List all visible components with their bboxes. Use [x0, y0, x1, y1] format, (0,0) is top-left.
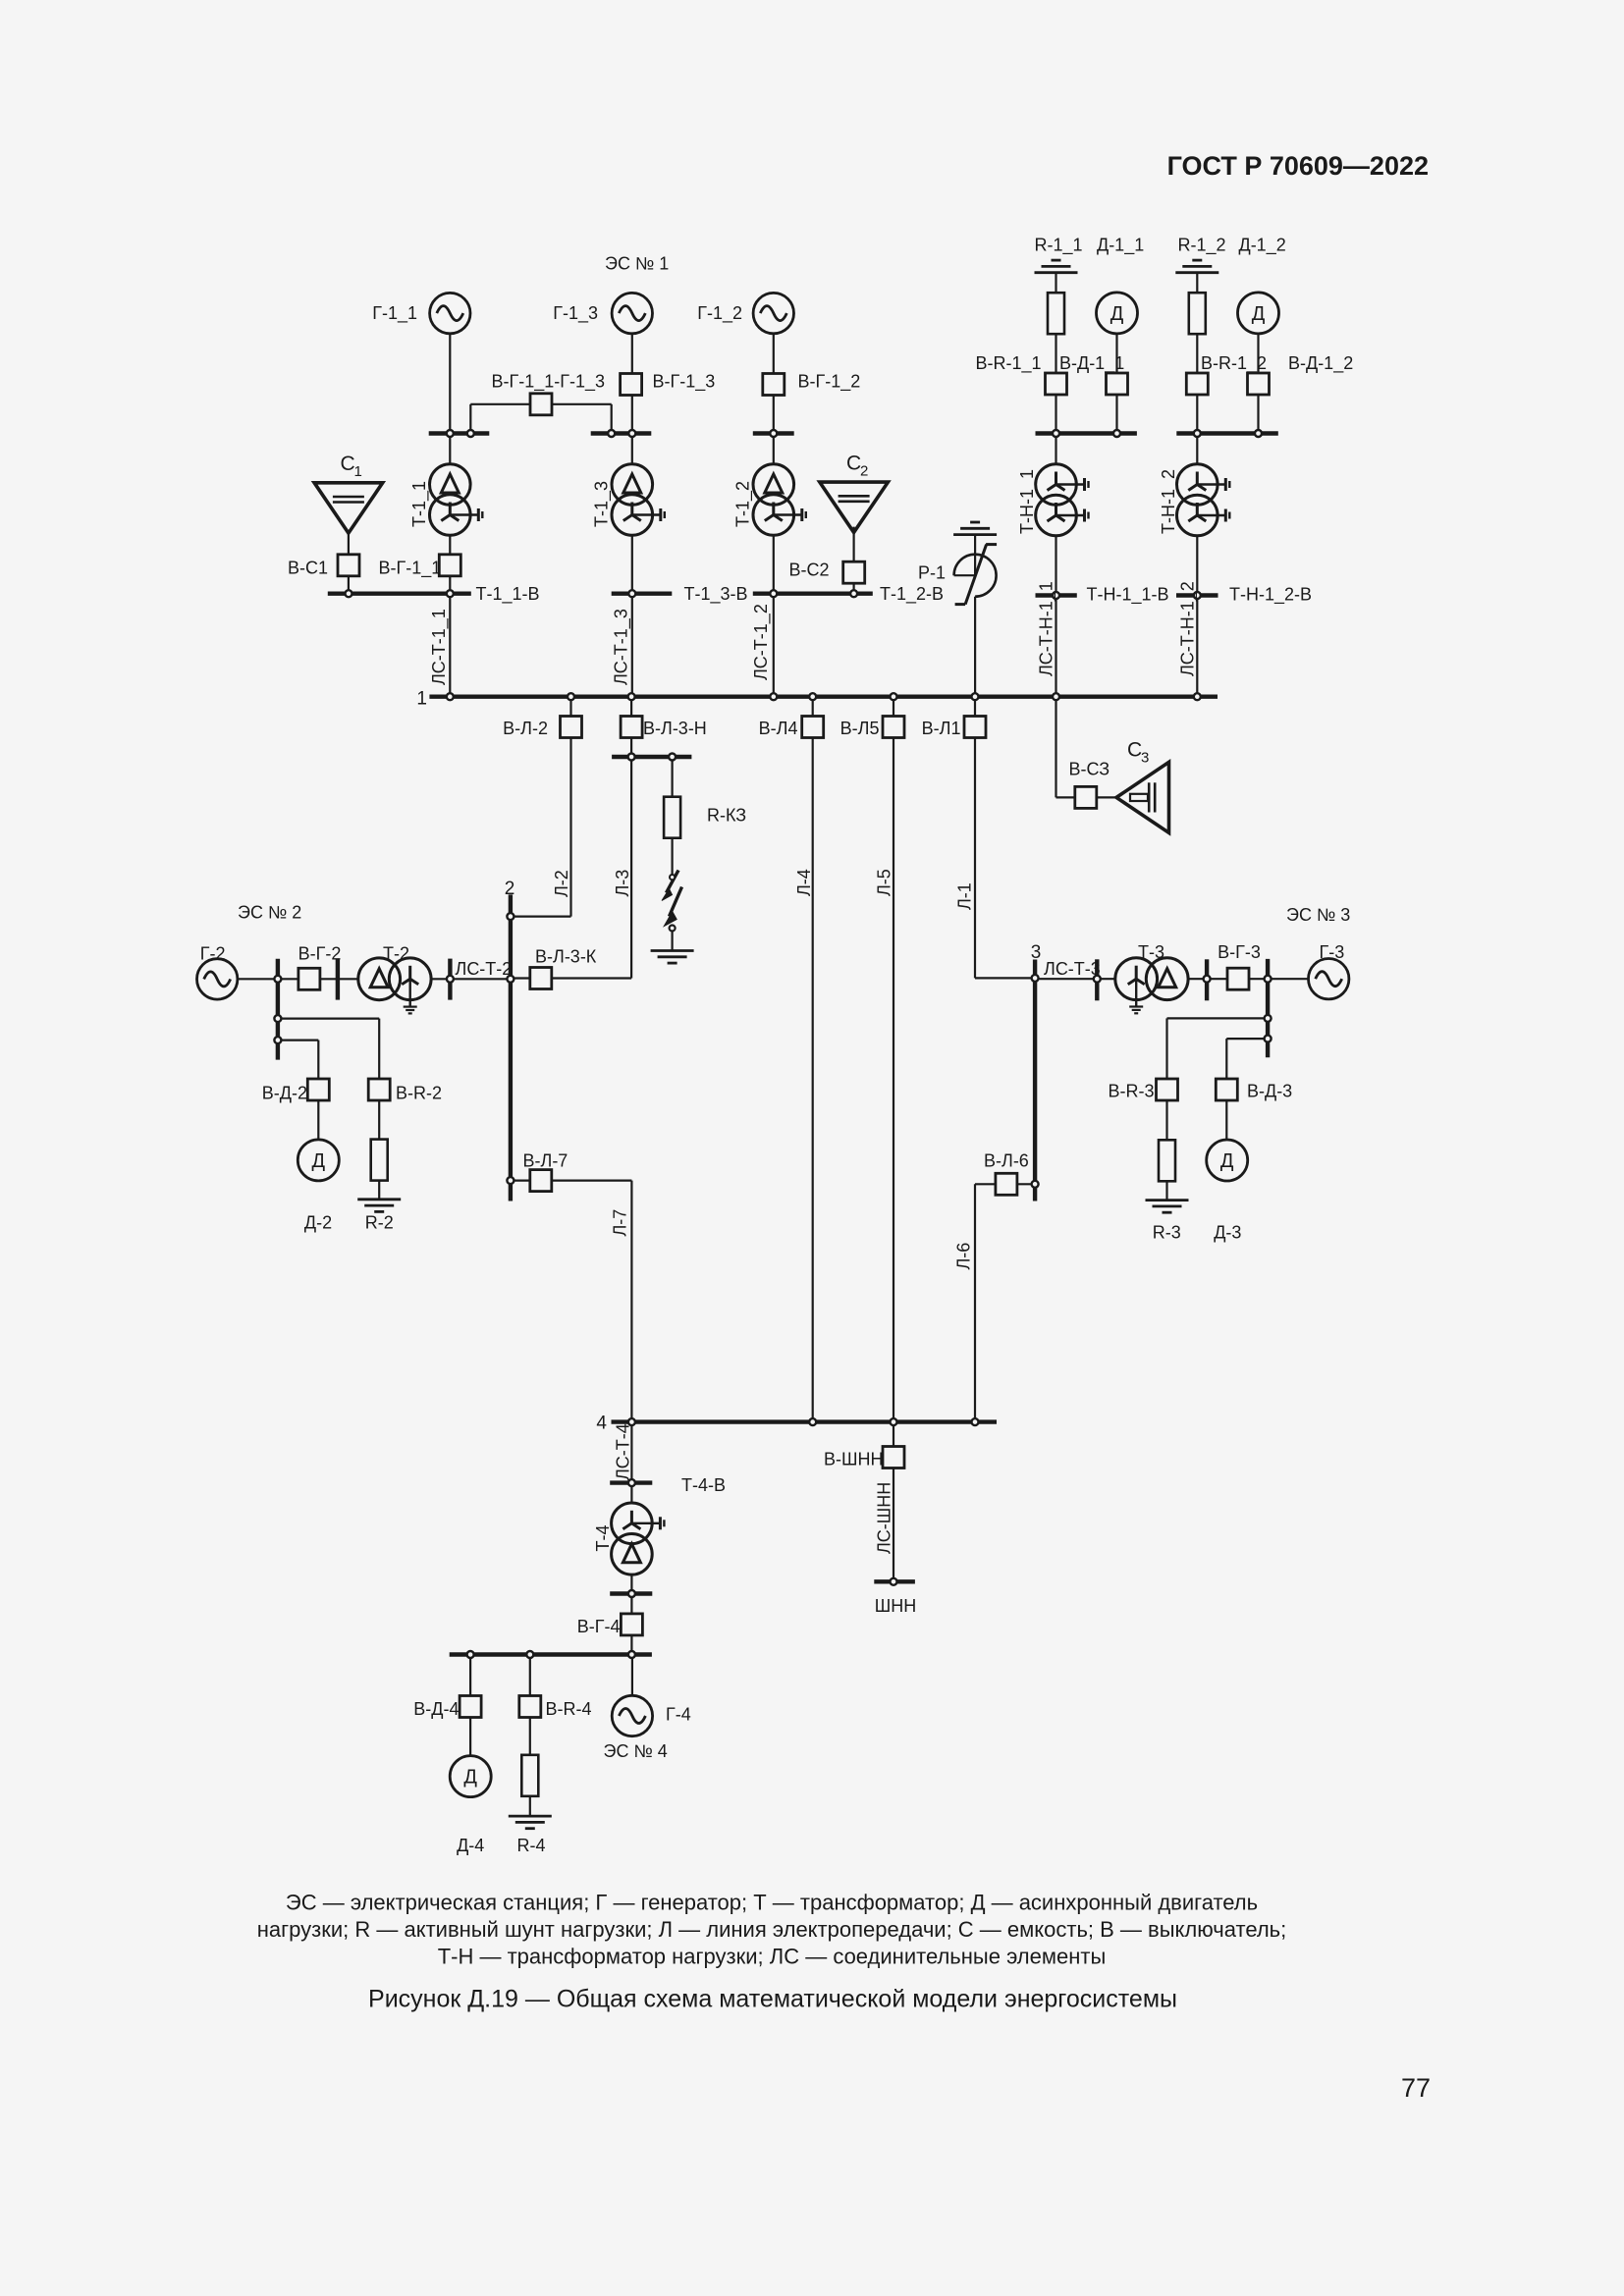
- svg-text:Д-3: Д-3: [1214, 1222, 1241, 1242]
- svg-text:Г-3: Г-3: [1320, 942, 1345, 962]
- svg-text:ЭС № 2: ЭС № 2: [238, 903, 301, 923]
- svg-text:R-КЗ: R-КЗ: [707, 806, 746, 826]
- svg-text:ЛС-Т-Н-1_2: ЛС-Т-Н-1_2: [1178, 581, 1199, 676]
- svg-text:1: 1: [416, 689, 427, 710]
- svg-text:В-Л-2: В-Л-2: [503, 719, 548, 738]
- svg-text:Г-1_1: Г-1_1: [372, 303, 417, 324]
- svg-text:ГОСТ Р 70609—2022: ГОСТ Р 70609—2022: [1167, 151, 1429, 181]
- svg-text:Г-1_2: Г-1_2: [697, 303, 742, 324]
- svg-text:Д-4: Д-4: [457, 1836, 484, 1855]
- svg-text:Т-Н-1_2-В: Т-Н-1_2-В: [1229, 585, 1312, 606]
- svg-text:В-Д-4: В-Д-4: [413, 1699, 459, 1719]
- svg-text:В-Д-1_1: В-Д-1_1: [1059, 353, 1124, 374]
- svg-text:Т-1_2: Т-1_2: [733, 481, 754, 527]
- svg-text:77: 77: [1401, 2073, 1431, 2103]
- svg-text:Т-Н-1_1-В: Т-Н-1_1-В: [1087, 585, 1169, 606]
- svg-text:Д: Д: [1220, 1150, 1234, 1172]
- svg-text:ЛС-Т-1_1: ЛС-Т-1_1: [429, 609, 450, 685]
- svg-text:В-Л-3-Н: В-Л-3-Н: [643, 719, 707, 738]
- svg-text:В-R-1_1: В-R-1_1: [976, 353, 1042, 374]
- svg-text:В-Л-7: В-Л-7: [523, 1151, 568, 1171]
- svg-text:ЛС-Т-1_2: ЛС-Т-1_2: [751, 604, 772, 680]
- svg-text:Т-3: Т-3: [1138, 942, 1164, 962]
- svg-text:ЭС № 4: ЭС № 4: [604, 1741, 668, 1761]
- svg-text:Л-3: Л-3: [613, 870, 632, 897]
- svg-text:Л-2: Л-2: [552, 870, 571, 897]
- svg-text:ЛС-Т-2: ЛС-Т-2: [456, 959, 513, 979]
- svg-text:Т-Н-1_2: Т-Н-1_2: [1159, 469, 1179, 534]
- svg-text:Т-Н — трансформатор нагрузки;: Т-Н — трансформатор нагрузки; ЛС — соеди…: [438, 1944, 1107, 1968]
- svg-text:Г-1_3: Г-1_3: [553, 303, 598, 324]
- svg-text:В-ШНН: В-ШНН: [824, 1450, 884, 1469]
- svg-text:Л-7: Л-7: [611, 1209, 630, 1237]
- svg-text:3: 3: [1141, 750, 1149, 767]
- svg-text:Д: Д: [463, 1767, 477, 1789]
- svg-text:Г-2: Г-2: [200, 944, 226, 964]
- svg-text:Л-4: Л-4: [794, 869, 814, 896]
- svg-text:Д-2: Д-2: [304, 1213, 332, 1233]
- svg-text:С: С: [1127, 739, 1142, 762]
- svg-text:В-С1: В-С1: [288, 559, 328, 578]
- svg-text:Д: Д: [1110, 303, 1124, 325]
- svg-text:В-Г-2: В-Г-2: [298, 944, 342, 964]
- svg-text:Л-6: Л-6: [954, 1243, 974, 1270]
- svg-text:В-Г-1_3: В-Г-1_3: [653, 372, 716, 393]
- svg-text:ЛС-Т-Н-1_1: ЛС-Т-Н-1_1: [1037, 581, 1057, 676]
- svg-text:Т-4-В: Т-4-В: [681, 1475, 726, 1495]
- svg-text:ЛС-Т-3: ЛС-Т-3: [1044, 959, 1101, 979]
- svg-text:Р-1: Р-1: [918, 563, 946, 583]
- svg-text:Д: Д: [1252, 303, 1266, 325]
- svg-text:В-Л4: В-Л4: [759, 719, 798, 738]
- svg-text:ШНН: ШНН: [875, 1596, 917, 1616]
- svg-text:В-Л-6: В-Л-6: [984, 1151, 1029, 1171]
- svg-text:Т-1_2-В: Т-1_2-В: [880, 584, 944, 605]
- svg-text:ЛС-ШНН: ЛС-ШНН: [875, 1482, 894, 1554]
- svg-text:ЭС № 1: ЭС № 1: [605, 254, 669, 274]
- svg-text:В-Д-2: В-Д-2: [262, 1084, 307, 1103]
- svg-text:Л-5: Л-5: [875, 869, 894, 896]
- svg-text:Т-1_3-В: Т-1_3-В: [684, 584, 748, 605]
- svg-text:2: 2: [505, 879, 515, 899]
- svg-text:В-R-3: В-R-3: [1108, 1082, 1154, 1101]
- svg-text:ЭС — электрическая станция; Г: ЭС — электрическая станция; Г — генерато…: [286, 1890, 1258, 1914]
- svg-text:Д: Д: [312, 1150, 326, 1172]
- svg-text:В-Д-1_2: В-Д-1_2: [1288, 353, 1353, 374]
- svg-text:ЭС № 3: ЭС № 3: [1286, 905, 1350, 925]
- svg-text:В-Г-1_2: В-Г-1_2: [798, 372, 861, 393]
- svg-text:В-Г-1_1-Г-1_3: В-Г-1_1-Г-1_3: [492, 372, 606, 393]
- svg-text:В-R-4: В-R-4: [546, 1699, 592, 1719]
- svg-text:Т-4: Т-4: [593, 1525, 613, 1552]
- svg-text:В-Л1: В-Л1: [922, 719, 961, 738]
- svg-text:Г-4: Г-4: [666, 1704, 691, 1724]
- svg-text:Т-Н-1_1: Т-Н-1_1: [1017, 469, 1038, 534]
- svg-text:В-Д-3: В-Д-3: [1247, 1082, 1292, 1101]
- svg-text:С: С: [846, 453, 861, 475]
- svg-text:Д-1_1: Д-1_1: [1097, 236, 1144, 256]
- svg-text:В-Л-3-К: В-Л-3-К: [535, 947, 597, 967]
- svg-text:Д-1_2: Д-1_2: [1239, 236, 1286, 256]
- svg-text:В-R-1_2: В-R-1_2: [1201, 353, 1267, 374]
- svg-text:В-R-2: В-R-2: [396, 1084, 442, 1103]
- svg-text:С: С: [341, 453, 355, 475]
- svg-text:В-Л5: В-Л5: [840, 719, 880, 738]
- svg-text:3: 3: [1031, 942, 1042, 963]
- svg-text:1: 1: [354, 463, 362, 480]
- svg-text:Т-1_1-В: Т-1_1-В: [476, 584, 540, 605]
- svg-text:В-Г-3: В-Г-3: [1218, 942, 1261, 962]
- svg-text:R-1_2: R-1_2: [1178, 236, 1226, 256]
- svg-text:R-2: R-2: [365, 1213, 394, 1233]
- svg-text:Рисунок Д.19 — Общая схема мат: Рисунок Д.19 — Общая схема математическо…: [368, 1985, 1177, 2012]
- svg-text:Т-2: Т-2: [383, 944, 409, 964]
- svg-text:Т-1_3: Т-1_3: [592, 481, 613, 527]
- svg-text:Л-1: Л-1: [955, 882, 975, 910]
- svg-text:R-4: R-4: [516, 1836, 545, 1855]
- svg-text:В-Г-4: В-Г-4: [577, 1617, 621, 1636]
- svg-text:В-Г-1_1: В-Г-1_1: [379, 559, 442, 579]
- svg-text:ЛС-Т-4: ЛС-Т-4: [614, 1423, 633, 1480]
- svg-text:В-СЗ: В-СЗ: [1069, 760, 1110, 779]
- svg-text:R-1_1: R-1_1: [1035, 236, 1083, 256]
- svg-text:R-3: R-3: [1153, 1222, 1181, 1242]
- svg-text:2: 2: [860, 463, 868, 480]
- svg-text:ЛС-Т-1_3: ЛС-Т-1_3: [612, 609, 632, 685]
- svg-text:В-С2: В-С2: [788, 561, 829, 580]
- svg-text:4: 4: [596, 1413, 607, 1433]
- svg-text:Т-1_1: Т-1_1: [409, 481, 430, 527]
- svg-text:нагрузки; R — активный шунт на: нагрузки; R — активный шунт нагрузки; Л …: [257, 1917, 1286, 1942]
